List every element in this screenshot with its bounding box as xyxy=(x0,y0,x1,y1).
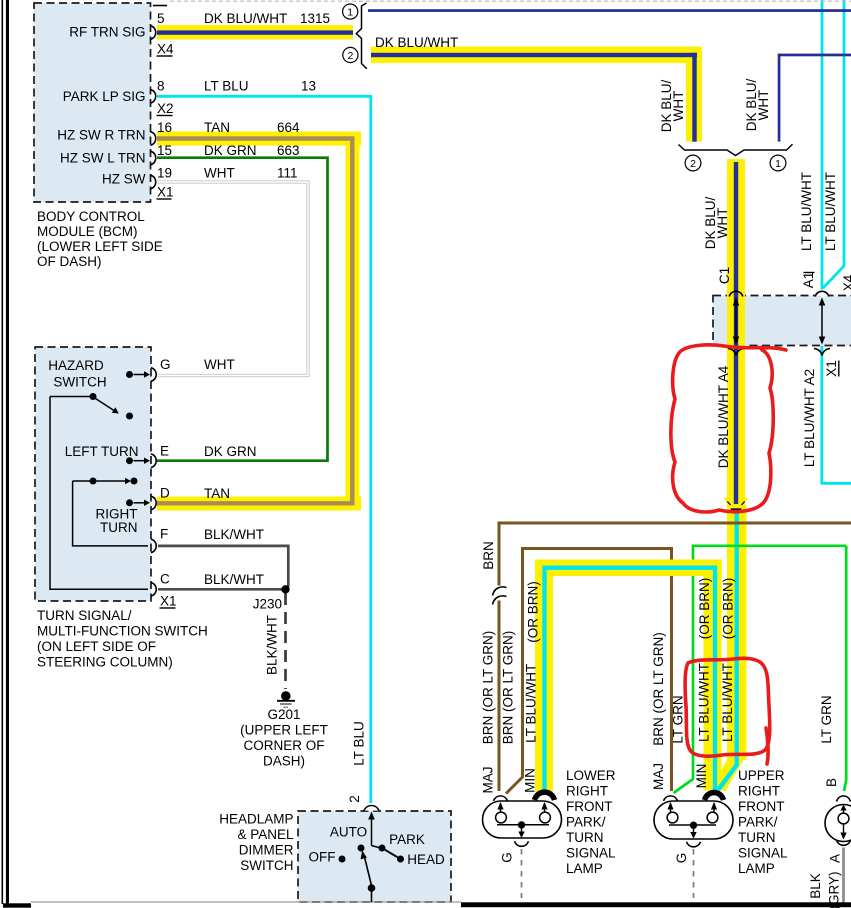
svg-text:F: F xyxy=(160,527,168,542)
svg-text:663: 663 xyxy=(277,143,300,158)
svg-text:B: B xyxy=(824,778,839,787)
svg-text:SIGNAL: SIGNAL xyxy=(738,846,788,861)
svg-text:BRN (OR LT GRN): BRN (OR LT GRN) xyxy=(501,631,516,745)
svg-text:MIN: MIN xyxy=(694,764,709,789)
svg-text:8: 8 xyxy=(157,79,165,94)
svg-text:A: A xyxy=(828,854,843,863)
svg-text:DK GRN: DK GRN xyxy=(204,444,257,459)
svg-text:1315: 1315 xyxy=(300,11,330,26)
svg-text:SWITCH: SWITCH xyxy=(53,375,106,390)
svg-text:OF DASH): OF DASH) xyxy=(37,254,102,269)
svg-text:BODY CONTROL: BODY CONTROL xyxy=(37,209,145,224)
svg-text:LT BLU/WHT: LT BLU/WHT xyxy=(799,172,814,251)
svg-text:LAMP: LAMP xyxy=(738,861,775,876)
svg-text:13: 13 xyxy=(301,79,316,94)
svg-text:LT BLU: LT BLU xyxy=(204,79,249,94)
svg-text:RF TRN SIG: RF TRN SIG xyxy=(69,25,145,40)
svg-text:WHT: WHT xyxy=(204,166,235,181)
svg-text:664: 664 xyxy=(277,120,300,135)
svg-text:DK BLU/WHT A4: DK BLU/WHT A4 xyxy=(716,365,731,468)
svg-text:LT BLU/WHT: LT BLU/WHT xyxy=(697,663,712,742)
svg-text:2: 2 xyxy=(690,158,696,170)
svg-text:LOWER: LOWER xyxy=(566,768,616,783)
svg-text:HZ SW L TRN: HZ SW L TRN xyxy=(60,151,146,166)
svg-text:MAJ: MAJ xyxy=(651,763,666,790)
svg-text:111: 111 xyxy=(277,166,298,181)
svg-text:DK BLU/WHT: DK BLU/WHT xyxy=(375,35,458,50)
svg-text:FRONT: FRONT xyxy=(738,799,785,814)
svg-text:TURN: TURN xyxy=(100,520,138,535)
svg-text:FRONT: FRONT xyxy=(566,799,613,814)
svg-text:(OR BRN): (OR BRN) xyxy=(526,581,541,643)
svg-text:RIGHT: RIGHT xyxy=(566,784,608,799)
svg-text:X4: X4 xyxy=(841,274,851,291)
svg-text:DIMMER: DIMMER xyxy=(239,843,294,858)
svg-text:(UPPER LEFT: (UPPER LEFT xyxy=(240,723,328,738)
svg-text:(ON LEFT SIDE OF: (ON LEFT SIDE OF xyxy=(37,639,156,654)
svg-text:LT BLU/WHT: LT BLU/WHT xyxy=(524,664,539,743)
svg-text:WHT: WHT xyxy=(204,357,235,372)
svg-text:(OR BRN): (OR BRN) xyxy=(721,578,736,640)
svg-text:TURN SIGNAL/: TURN SIGNAL/ xyxy=(37,608,132,623)
svg-text:DASH): DASH) xyxy=(263,754,305,769)
svg-text:G201: G201 xyxy=(267,707,300,722)
svg-text:1: 1 xyxy=(347,7,353,19)
svg-text:HAZARD: HAZARD xyxy=(48,358,104,373)
svg-text:DK BLU/WHT: DK BLU/WHT xyxy=(204,11,287,26)
svg-text:G: G xyxy=(674,853,689,864)
svg-text:LT BLU/WHT: LT BLU/WHT xyxy=(720,663,735,742)
svg-text:PARK: PARK xyxy=(389,832,425,847)
svg-text:HZ SW: HZ SW xyxy=(102,172,146,187)
svg-text:LT BLU/WHT A2: LT BLU/WHT A2 xyxy=(802,369,817,467)
svg-text:X2: X2 xyxy=(157,101,174,116)
svg-text:CORNER OF: CORNER OF xyxy=(244,738,325,753)
svg-text:OFF: OFF xyxy=(309,850,336,865)
svg-text:LT BLU: LT BLU xyxy=(352,721,367,766)
svg-text:(LOWER LEFT SIDE: (LOWER LEFT SIDE xyxy=(37,239,163,254)
svg-text:(GRY): (GRY) xyxy=(827,871,842,908)
svg-text:LAMP: LAMP xyxy=(566,861,603,876)
svg-text:5: 5 xyxy=(157,11,165,26)
svg-text:HEADLAMP: HEADLAMP xyxy=(219,812,293,827)
svg-text:DK GRN: DK GRN xyxy=(204,143,257,158)
svg-text:MULTI-FUNCTION SWITCH: MULTI-FUNCTION SWITCH xyxy=(37,624,208,639)
svg-text:WHT: WHT xyxy=(756,90,771,121)
svg-text:WHT: WHT xyxy=(715,208,730,239)
svg-text:SIGNAL: SIGNAL xyxy=(566,846,616,861)
svg-text:PARK/: PARK/ xyxy=(738,815,778,830)
svg-text:2: 2 xyxy=(347,50,353,62)
svg-text:G: G xyxy=(160,357,171,372)
svg-text:16: 16 xyxy=(157,120,172,135)
svg-text:LT GRN: LT GRN xyxy=(671,695,686,743)
svg-text:C1: C1 xyxy=(717,267,732,284)
svg-text:BLK/WHT: BLK/WHT xyxy=(265,615,280,675)
svg-text:X1: X1 xyxy=(824,360,839,377)
svg-text:2: 2 xyxy=(347,795,362,803)
svg-text:A1: A1 xyxy=(801,272,816,289)
svg-text:HEAD: HEAD xyxy=(407,852,445,867)
svg-text:RIGHT: RIGHT xyxy=(738,784,780,799)
svg-text:TAN: TAN xyxy=(204,486,230,501)
svg-text:TAN: TAN xyxy=(204,120,230,135)
svg-text:(OR BRN): (OR BRN) xyxy=(697,578,712,640)
svg-text:TURN: TURN xyxy=(566,830,604,845)
svg-text:LT BLU/WHT: LT BLU/WHT xyxy=(823,172,838,251)
svg-text:LT GRN: LT GRN xyxy=(819,695,834,743)
svg-text:G: G xyxy=(500,852,515,863)
svg-text:X4: X4 xyxy=(157,42,174,57)
svg-text:WHT: WHT xyxy=(671,91,686,122)
svg-text:X1: X1 xyxy=(160,594,177,609)
svg-text:& PANEL: & PANEL xyxy=(237,827,294,842)
svg-text:X1: X1 xyxy=(157,185,174,200)
svg-text:UPPER: UPPER xyxy=(738,768,785,783)
svg-text:BRN: BRN xyxy=(481,541,496,570)
svg-text:BLK: BLK xyxy=(808,873,823,899)
svg-text:PARK/: PARK/ xyxy=(566,815,606,830)
svg-text:LEFT TURN: LEFT TURN xyxy=(65,444,139,459)
svg-text:15: 15 xyxy=(157,143,172,158)
svg-text:STEERING COLUMN): STEERING COLUMN) xyxy=(37,655,173,670)
svg-text:MODULE (BCM): MODULE (BCM) xyxy=(37,224,138,239)
svg-text:19: 19 xyxy=(157,166,172,181)
svg-text:BLK/WHT: BLK/WHT xyxy=(204,527,264,542)
svg-text:SWITCH: SWITCH xyxy=(240,858,293,873)
svg-text:PARK LP SIG: PARK LP SIG xyxy=(63,89,146,104)
svg-text:C: C xyxy=(160,572,170,587)
svg-text:1: 1 xyxy=(775,158,781,170)
svg-text:TURN: TURN xyxy=(738,830,776,845)
svg-text:BRN (OR LT GRN): BRN (OR LT GRN) xyxy=(481,631,496,745)
svg-text:BRN (OR LT GRN): BRN (OR LT GRN) xyxy=(651,632,666,746)
svg-text:J230: J230 xyxy=(253,597,282,612)
svg-text:MIN: MIN xyxy=(523,768,538,793)
svg-text:AUTO: AUTO xyxy=(330,825,367,840)
svg-text:D: D xyxy=(160,486,170,501)
svg-text:HZ SW R TRN: HZ SW R TRN xyxy=(57,128,145,143)
svg-text:BLK/WHT: BLK/WHT xyxy=(204,572,264,587)
svg-text:E: E xyxy=(160,444,169,459)
svg-text:MAJ: MAJ xyxy=(481,767,496,794)
